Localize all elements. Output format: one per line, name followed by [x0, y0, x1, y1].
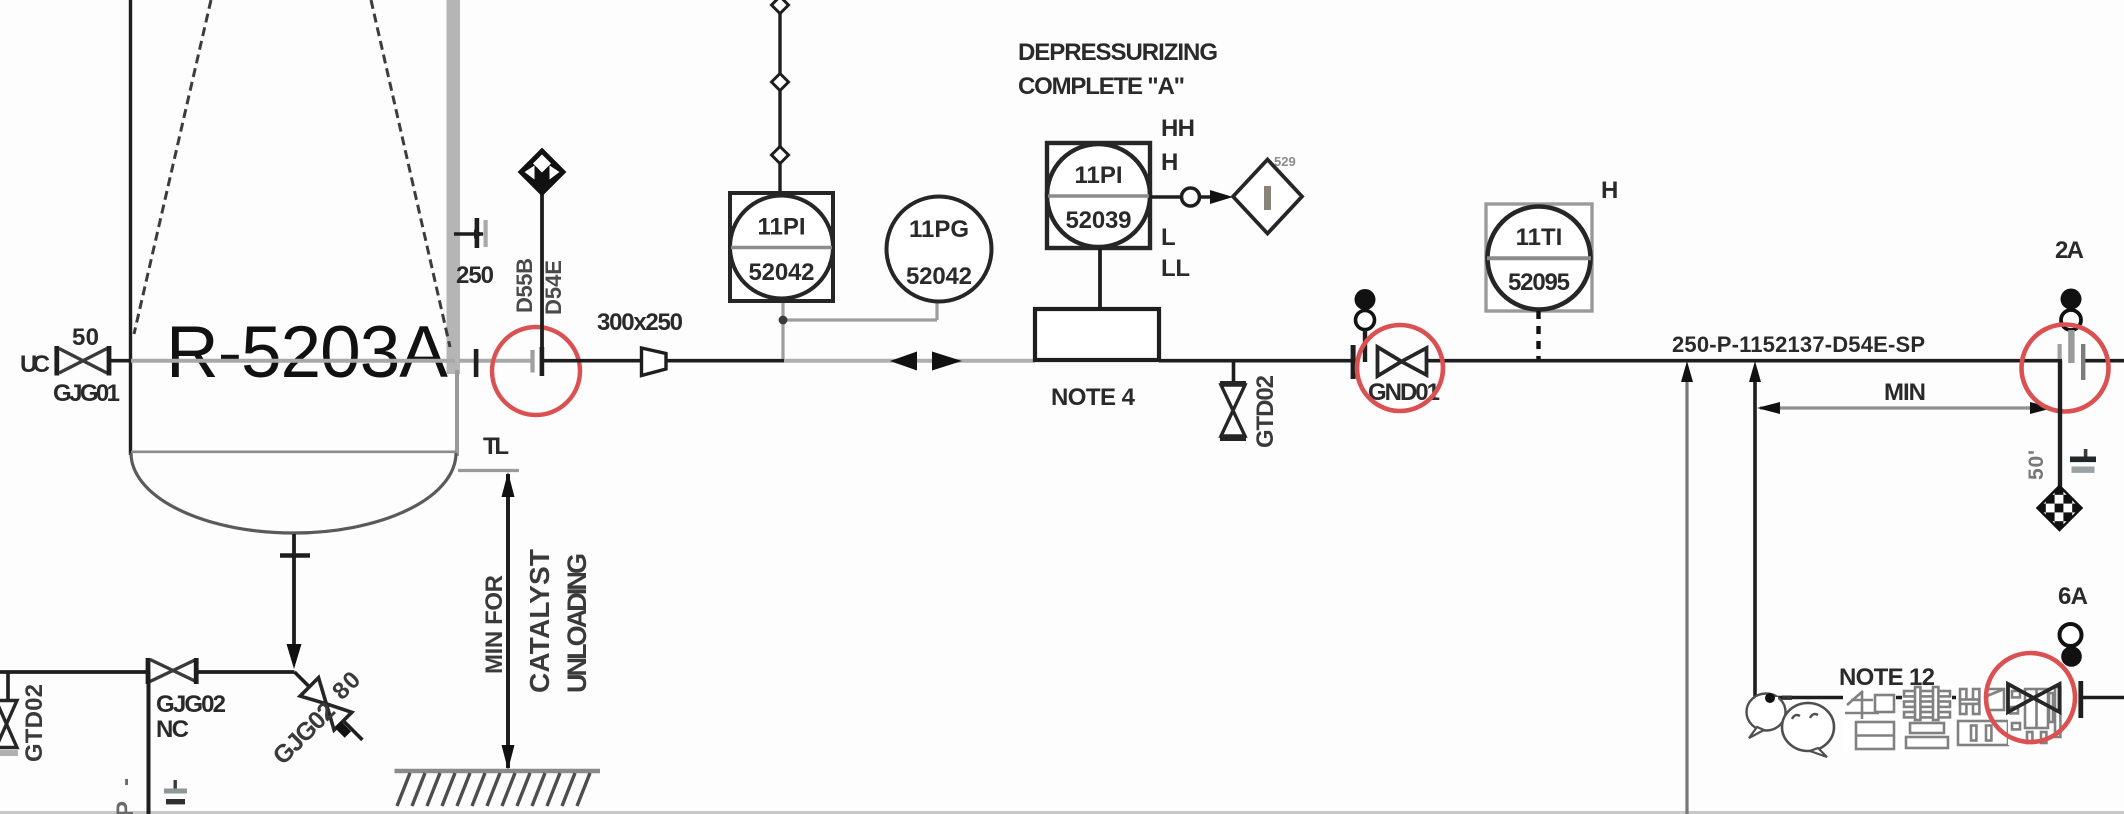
flow arrow left [890, 352, 917, 371]
svg-text:52095: 52095 [1508, 269, 1570, 296]
catalyst unloading line [0, 670, 147, 674]
main line black to reducer [543, 359, 642, 363]
bottom nozzle flange bar [280, 553, 310, 558]
vessel R-5203A right wall (thick gray) [447, 0, 461, 374]
small diamond 2 [772, 74, 789, 91]
interlock diamond I [1233, 160, 1302, 234]
svg-text:H: H [1601, 177, 1618, 204]
svg-text:NOTE 4: NOTE 4 [1051, 384, 1136, 411]
signal line to interlock [1150, 195, 1181, 199]
left edge valve GTD02 bowtie [0, 701, 17, 748]
vessel bottom nozzle [292, 534, 296, 648]
diagonal line to valve 80 GJG02 [285, 663, 371, 749]
svg-text:LL: LL [1161, 255, 1190, 282]
svg-text:529: 529 [1274, 154, 1296, 169]
valve GJG01 cross [59, 349, 107, 374]
vessel internal cone dashed left [134, 0, 211, 334]
junction dot [779, 316, 788, 325]
2A break gray tick right [2081, 344, 2085, 380]
ground line [395, 769, 601, 773]
svg-text:H: H [1161, 149, 1178, 176]
vessel nozzle flange tick [474, 349, 479, 377]
svg-text:DEPRESSURIZING: DEPRESSURIZING [1018, 39, 1218, 66]
main line black after reducer [666, 359, 784, 363]
spec break gray tick [530, 350, 534, 373]
11TI dashed tap [1536, 311, 1540, 359]
main line gray vessel to spec break [459, 359, 531, 363]
dimension line MIN FOR CATALYST UNLOADING [506, 474, 510, 768]
instrument 11PI 52042 mid line [731, 246, 832, 250]
drop line at valve [147, 672, 151, 814]
main line black GND01 to 2A break [1427, 359, 2062, 363]
instrument 11PI 52039 square [1047, 143, 1150, 248]
spec symbol diamond D55B/D54E [519, 149, 565, 195]
svg-text:11TI: 11TI [1516, 224, 1563, 251]
2A stem gray [2068, 330, 2074, 363]
small diamond 3 [772, 147, 789, 164]
left edge valve GTD02 bottom bar [0, 750, 18, 756]
MIN dimension line [1760, 406, 2051, 409]
note12 line continuation [2083, 696, 2124, 700]
vessel R-5203A left wall [129, 0, 132, 455]
valve GJG02 right tick [194, 658, 199, 684]
valve GJG02 left tick [146, 658, 151, 684]
dim arrowhead down [502, 745, 515, 770]
svg-text:52042: 52042 [906, 263, 972, 290]
partial drain symbol [174, 780, 177, 789]
watermark character jian [1956, 686, 2010, 747]
nozzle 250 line [454, 232, 483, 236]
line dash visible through watermark [1782, 696, 1792, 700]
vessel R-5203A right wall lower [455, 370, 459, 456]
svg-text:D54E: D54E [541, 260, 566, 315]
6A open circle [2060, 624, 2082, 646]
valve GJG02 cross [150, 660, 196, 682]
valve 80 GJG02 bowtie [300, 678, 352, 730]
valve GTD02 top bar [1220, 381, 1246, 385]
svg-text:GTD02: GTD02 [1252, 375, 1279, 448]
signal circle [1182, 188, 1200, 206]
drop line to sample diamond [2058, 361, 2062, 487]
nozzle 250 flange tick black [475, 218, 480, 248]
dim arrowhead up [502, 472, 515, 497]
instrument 11TI 52095 square [1486, 204, 1592, 311]
instrument 11PI 52042 tap lines [781, 301, 784, 359]
svg-text:11PG: 11PG [909, 216, 969, 243]
arrowhead up black riser [1749, 361, 1761, 382]
svg-text:MIN FOR: MIN FOR [481, 575, 508, 674]
watermark character ce [2008, 685, 2063, 745]
valve at note12 line bowtie [2008, 684, 2060, 712]
svg-text:HH: HH [1161, 115, 1195, 142]
TL datum line [458, 469, 519, 472]
watermark character hui [1902, 685, 1952, 750]
svg-text:UNLOADING: UNLOADING [562, 553, 592, 693]
svg-text:GJG02: GJG02 [156, 691, 226, 718]
checkered diamond [2038, 486, 2082, 530]
watermark character zhi [1843, 687, 1896, 751]
svg-text:52042: 52042 [749, 259, 815, 286]
spec break black tick [540, 347, 545, 376]
instrument 11PI 52039 mid line [1048, 194, 1149, 198]
MIN arrowhead right [2030, 402, 2053, 414]
svg-text:R-5203A: R-5203A [166, 312, 448, 393]
junction dot on note12 line [1765, 693, 1775, 703]
GND01 solenoid stem [1363, 330, 1367, 362]
svg-text:11PI: 11PI [1074, 162, 1122, 189]
svg-text:250-P-1152137-D54E-SP: 250-P-1152137-D54E-SP [1672, 332, 1925, 357]
svg-text:TL: TL [483, 433, 509, 460]
valve GJG01 right tick [107, 346, 112, 376]
svg-text:52039: 52039 [1066, 207, 1132, 234]
main line black after 2A break [2081, 359, 2124, 363]
2A topworks filled circle [2061, 289, 2082, 310]
svg-text:300x250: 300x250 [597, 309, 683, 336]
svg-text:COMPLETE "A": COMPLETE "A" [1018, 73, 1185, 100]
svg-text:GTD02: GTD02 [21, 684, 48, 762]
svg-text:NC: NC [156, 716, 189, 743]
drain symbol [2084, 449, 2088, 457]
stub to vessel [111, 359, 131, 363]
red circle annotation 4 [1986, 653, 2075, 742]
valve GTD02 bottom bar [1220, 437, 1246, 441]
branch riser black at 1755 [1755, 372, 2008, 698]
GND01 solenoid filled circle [1355, 289, 1376, 310]
svg-text:11PI: 11PI [757, 214, 805, 241]
svg-text:6A: 6A [2058, 583, 2088, 610]
main line gray middle [784, 359, 1035, 363]
main line black box to GND01 [1159, 359, 1355, 363]
signal arrow [1200, 195, 1222, 198]
junction dot redrawn [1765, 693, 1775, 703]
valve GTD02 bowtie [1221, 385, 1245, 436]
instrument 11PG 52042 circle [887, 197, 992, 302]
vessel bottom weld line [131, 450, 456, 453]
red circle annotation 1 [492, 327, 580, 415]
arrowhead up gray riser [1681, 361, 1693, 382]
svg-text:MIN: MIN [1884, 379, 1926, 406]
2A topworks open circle [2061, 310, 2081, 330]
svg-text:D55B: D55B [512, 258, 537, 313]
vessel internal cone dashed right [371, 0, 450, 347]
svg-text:50: 50 [72, 324, 99, 351]
2A break gray tick left [2058, 344, 2062, 359]
nozzle 250 arrow [474, 230, 484, 239]
svg-text:GJG01: GJG01 [53, 380, 120, 407]
NOTE 4 box [1035, 309, 1159, 360]
instrument 11PI 52042 square [730, 193, 833, 301]
line 11PI 52039 to box [1098, 248, 1102, 309]
valve GJG01 left tick [54, 346, 59, 376]
reducer 300x250 [642, 348, 667, 376]
spec break riser line [540, 192, 544, 358]
impulse line with diamonds [778, 0, 781, 194]
svg-text:250: 250 [456, 262, 494, 289]
branch valve GTD02 stem [1232, 362, 1236, 383]
branch riser gray at 1687 [1685, 372, 1688, 814]
small diamond 1 [772, 0, 789, 14]
6A filled circle [2061, 646, 2082, 667]
red circle annotation 3 [2022, 325, 2109, 412]
down arrowhead to unloading line [287, 644, 302, 669]
MIN arrowhead left [1757, 402, 1780, 414]
red circle annotation 2 [1357, 325, 1443, 411]
watermark chat icon big bubble [1782, 703, 1834, 757]
svg-text:CATALYST: CATALYST [524, 549, 555, 693]
instrument 11PI 52042 circle [730, 196, 833, 299]
flange tick after valve [2078, 681, 2083, 718]
main line gray through vessel [131, 359, 455, 363]
GND01 upstream flange tick [1351, 345, 1356, 379]
flow arrow right [932, 352, 962, 371]
vessel bottom head [131, 453, 456, 533]
interlock letter I [1264, 186, 1271, 210]
valve GND01 bowtie [1378, 347, 1427, 376]
nozzle 250 flange tick gray [484, 220, 488, 247]
instrument 11PI 52039 circle [1047, 144, 1150, 247]
instrument 11TI 52095 mid line [1487, 256, 1591, 260]
svg-text:UC: UC [20, 351, 50, 378]
left edge valve GTD02 stem [6, 672, 10, 700]
svg-text:2A: 2A [2055, 237, 2084, 264]
GND01 solenoid open circle [1356, 311, 1375, 330]
ground hatching [397, 773, 590, 806]
svg-text:L: L [1161, 224, 1176, 251]
svg-text:50': 50' [2025, 450, 2048, 480]
watermark chat icon small bubble [1747, 694, 1786, 739]
instrument 11TI 52095 circle [1488, 207, 1591, 310]
